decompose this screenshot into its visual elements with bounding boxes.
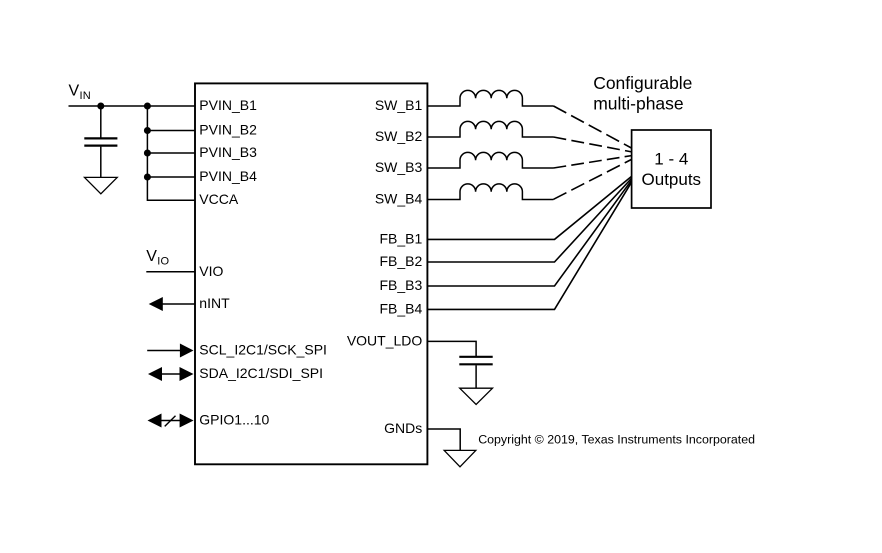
svg-text:VOUT_LDO: VOUT_LDO xyxy=(347,333,423,349)
svg-text:FB_B1: FB_B1 xyxy=(379,230,422,246)
svg-text:Configurable: Configurable xyxy=(593,73,692,93)
svg-text:SW_B3: SW_B3 xyxy=(375,159,423,175)
svg-text:FB_B2: FB_B2 xyxy=(379,253,422,269)
svg-text:SDA_I2C1/SDI_SPI: SDA_I2C1/SDI_SPI xyxy=(199,365,323,381)
svg-text:PVIN_B3: PVIN_B3 xyxy=(199,144,257,160)
svg-text:SW_B4: SW_B4 xyxy=(375,191,423,207)
svg-text:SW_B1: SW_B1 xyxy=(375,97,423,113)
svg-text:FB_B4: FB_B4 xyxy=(379,300,422,316)
svg-text:PVIN_B4: PVIN_B4 xyxy=(199,168,257,184)
svg-text:multi-phase: multi-phase xyxy=(593,94,683,114)
svg-text:SW_B2: SW_B2 xyxy=(375,128,423,144)
svg-text:IO: IO xyxy=(157,256,169,268)
svg-text:FB_B3: FB_B3 xyxy=(379,277,422,293)
svg-text:IN: IN xyxy=(80,90,91,102)
svg-text:PVIN_B1: PVIN_B1 xyxy=(199,97,257,113)
svg-text:PVIN_B2: PVIN_B2 xyxy=(199,122,257,138)
svg-text:VCCA: VCCA xyxy=(199,191,239,207)
svg-text:1 - 4: 1 - 4 xyxy=(654,150,688,169)
svg-text:SCL_I2C1/SCK_SPI: SCL_I2C1/SCK_SPI xyxy=(199,342,327,358)
svg-text:V: V xyxy=(69,83,80,100)
svg-text:nINT: nINT xyxy=(199,295,230,311)
svg-text:GPIO1...10: GPIO1...10 xyxy=(199,412,269,428)
svg-text:VIO: VIO xyxy=(199,263,223,279)
svg-text:V: V xyxy=(146,248,157,265)
svg-text:Outputs: Outputs xyxy=(642,170,702,189)
svg-text:Copyright © 2019, Texas Instru: Copyright © 2019, Texas Instruments Inco… xyxy=(478,433,755,447)
svg-text:GNDs: GNDs xyxy=(384,420,422,436)
